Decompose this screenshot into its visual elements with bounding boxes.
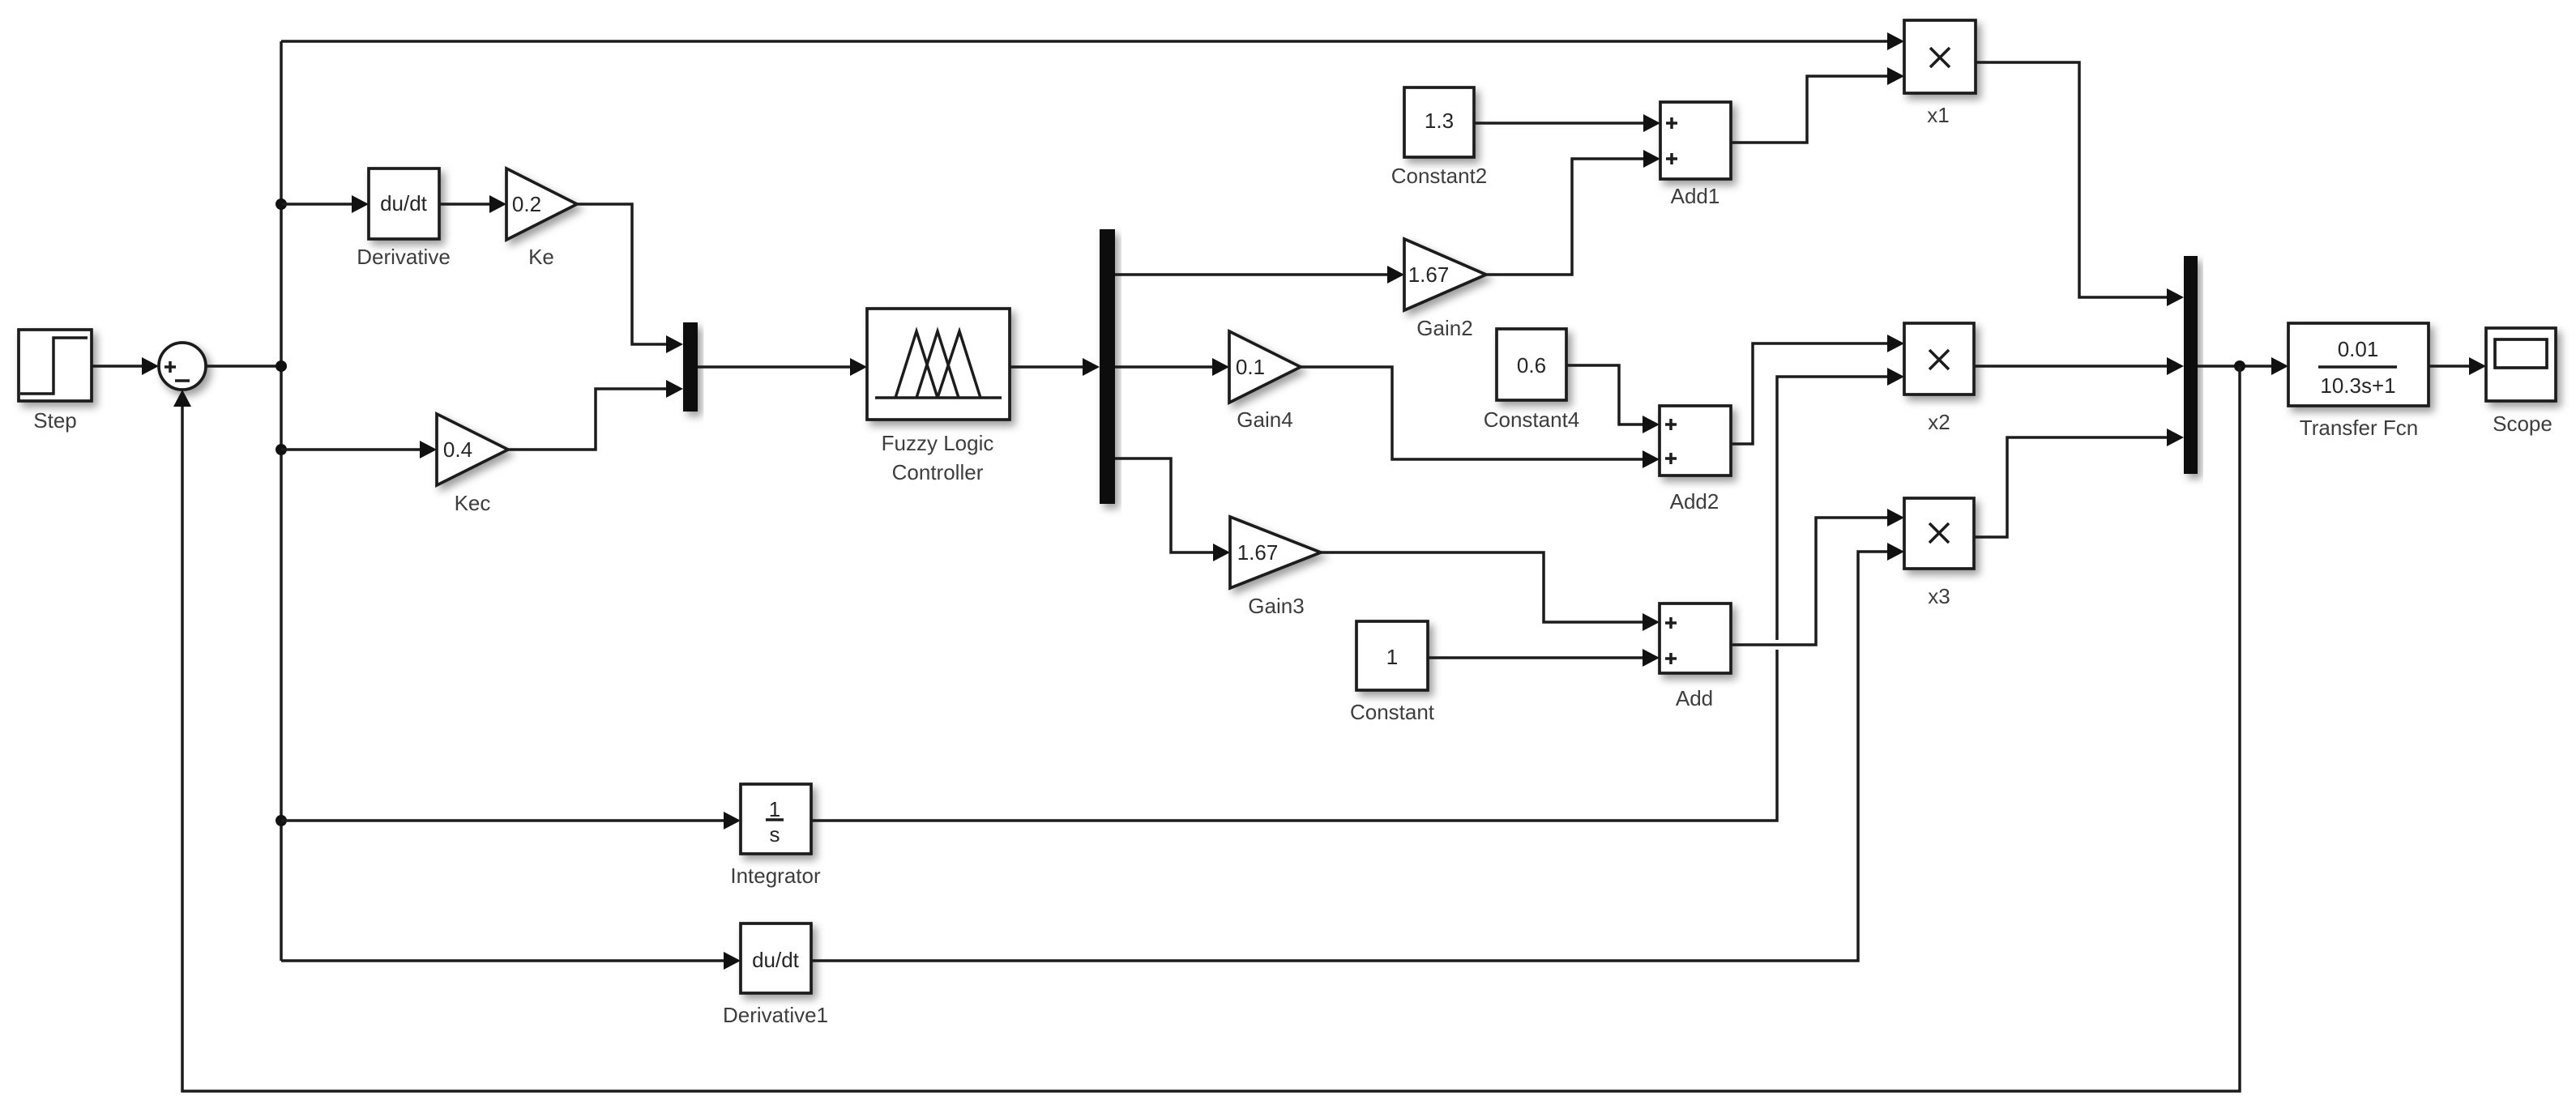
wire Demux port1 to Gain2	[1115, 266, 1404, 284]
product block x1	[1904, 20, 1976, 127]
step source block Step	[19, 330, 92, 433]
svg-text:Constant2: Constant2	[1391, 164, 1488, 188]
constant block Constant4 0.6	[1484, 329, 1580, 432]
wire Constant to Add port2	[1428, 649, 1660, 667]
wire bus to Derivative1	[281, 952, 741, 970]
svg-text:Transfer Fcn: Transfer Fcn	[2300, 416, 2418, 440]
gain Gain4 0.1	[1229, 331, 1301, 432]
adder Add1	[1660, 102, 1731, 208]
derivative block Derivative1	[723, 923, 828, 1027]
fuzzy logic controller block U1	[867, 309, 1010, 484]
sum junction Sum	[159, 343, 206, 390]
wire Sum output to bus node	[206, 365, 281, 368]
product block x2	[1904, 323, 1974, 434]
svg-text:1: 1	[1386, 645, 1398, 669]
scope block Scope	[2486, 328, 2556, 436]
node E dot (2764,452)	[2234, 360, 2245, 372]
svg-text:Ke: Ke	[528, 245, 554, 269]
svg-text:10.3s+1: 10.3s+1	[2320, 373, 2395, 398]
svg-text:Integrator: Integrator	[730, 864, 821, 888]
wire Kec to Mux1 port2	[508, 380, 683, 450]
wire Mux1 to Fuzzy Logic Controller	[698, 358, 867, 376]
svg-text:1: 1	[769, 797, 780, 821]
wire Integrator to x2 port2	[811, 368, 1904, 821]
adder Add2	[1660, 406, 1731, 514]
wire Step to Sum	[92, 357, 159, 375]
wire Demux port3 to Gain3	[1115, 458, 1230, 561]
constant block Constant2 1.3	[1391, 87, 1488, 188]
svg-text:Gain4: Gain4	[1237, 407, 1292, 432]
wire bus to Integrator	[281, 812, 741, 829]
svg-text:0.6: 0.6	[1517, 353, 1546, 377]
node A dot (347,252)	[276, 198, 287, 210]
wire Add2 to x2 port1	[1731, 335, 1904, 444]
transfer function block Transfer Fcn	[2288, 323, 2429, 440]
adder Add	[1660, 603, 1731, 710]
svg-text:Gain2: Gain2	[1416, 316, 1472, 340]
wire Ke to Mux1 port1	[577, 204, 683, 353]
wire Demux port2 to Gain4	[1115, 358, 1229, 376]
svg-text:0.4: 0.4	[443, 437, 472, 462]
svg-text:x1: x1	[1927, 103, 1949, 127]
wire Gain2 to Add1 port2	[1486, 150, 1660, 275]
svg-text:Fuzzy Logic: Fuzzy Logic	[882, 431, 994, 455]
svg-text:Add: Add	[1676, 686, 1713, 710]
wire feedback loop to Sum	[173, 366, 2240, 1091]
svg-text:0.2: 0.2	[512, 192, 541, 216]
gain Ke 0.2	[506, 168, 577, 269]
constant block Constant 1	[1350, 621, 1435, 724]
wire x1 to Mux2 port1	[1976, 62, 2184, 306]
product block x3	[1904, 498, 1974, 608]
wire Gain3 to Add port1	[1321, 552, 1660, 631]
demux Demux	[1100, 229, 1115, 504]
gain Gain3 1.67	[1230, 517, 1321, 618]
svg-text:Scope: Scope	[2493, 412, 2553, 436]
svg-text:0.01: 0.01	[2338, 337, 2379, 361]
wire bus to Kec	[281, 441, 437, 458]
wire main vertical bus x=347	[280, 41, 283, 961]
integrator block Integrator	[730, 784, 821, 888]
svg-text:Constant4: Constant4	[1484, 407, 1580, 432]
gain Gain2 1.67	[1404, 239, 1486, 340]
wire Add1 to x1 port2	[1731, 67, 1904, 143]
svg-text:Constant: Constant	[1350, 700, 1435, 724]
derivative block Derivative	[357, 168, 451, 269]
wire x3 to Mux2 port3	[1974, 429, 2184, 537]
svg-text:Kec: Kec	[455, 491, 491, 515]
svg-text:1.67: 1.67	[1237, 540, 1279, 565]
svg-text:Derivative: Derivative	[357, 245, 451, 269]
wire bus to Derivative	[281, 195, 369, 213]
wire Constant2 to Add1 port1	[1474, 114, 1660, 132]
svg-text:x3: x3	[1928, 584, 1950, 608]
mux Mux2	[2184, 256, 2198, 474]
node C dot (347,555)	[276, 444, 287, 455]
gain Kec 0.4	[437, 414, 508, 515]
svg-text:Step: Step	[33, 408, 77, 433]
svg-text:Add1: Add1	[1671, 184, 1720, 208]
wire Mux2 to Transfer Fcn	[2198, 357, 2288, 375]
mux Mux1	[683, 322, 698, 412]
svg-text:0.1: 0.1	[1236, 355, 1265, 379]
svg-text:Derivative1: Derivative1	[723, 1003, 828, 1027]
svg-text:s: s	[770, 822, 780, 846]
wire Gain4 to Add2 port2	[1301, 367, 1660, 468]
wire Constant4 to Add2 port1	[1566, 365, 1660, 433]
svg-text:1.3: 1.3	[1425, 109, 1454, 133]
svg-text:x2: x2	[1928, 410, 1950, 434]
svg-text:1.67: 1.67	[1408, 262, 1450, 287]
wire top line to x1	[281, 32, 1904, 50]
wire Derivative to Ke	[439, 195, 506, 213]
svg-text:Gain3: Gain3	[1248, 594, 1304, 618]
svg-text:du/dt: du/dt	[752, 948, 800, 972]
wire x2 to Mux2 port2	[1974, 357, 2184, 375]
svg-text:Add2: Add2	[1670, 489, 1719, 514]
node B dot (347,452)	[276, 360, 287, 372]
wire Derivative1 to x3 port2	[811, 543, 1904, 961]
wire Transfer Fcn to Scope	[2429, 357, 2486, 375]
svg-text:du/dt: du/dt	[380, 191, 428, 215]
wire Add to x3 port1	[1731, 509, 1904, 645]
svg-text:Controller: Controller	[892, 460, 984, 484]
node D dot (347,1013)	[276, 815, 287, 826]
wire FLC to Demux	[1010, 358, 1100, 376]
